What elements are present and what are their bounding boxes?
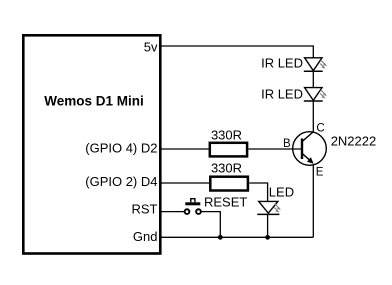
wire D3 cathode to ground rail <box>267 214 269 237</box>
svg-text:IR LED: IR LED <box>261 56 303 71</box>
svg-text:Wemos D1 Mini: Wemos D1 Mini <box>44 94 144 109</box>
IR LED D2 (bottom) <box>304 88 327 101</box>
svg-text:330R: 330R <box>211 161 242 176</box>
LED D3 <box>257 201 281 214</box>
resistor R2 330R <box>210 177 248 191</box>
wire D1 cathode to D2 anode <box>312 71 314 87</box>
wire R1 to Q1 base <box>248 148 302 150</box>
svg-text:Gnd: Gnd <box>133 229 158 244</box>
resistor R1 330R <box>210 143 247 157</box>
junction dot at LED/ground rail <box>265 235 270 240</box>
svg-text:RESET: RESET <box>204 195 247 210</box>
ground rail wire Gnd pin to Q1 emitter <box>162 236 314 238</box>
wire 5v pin to IR LED anode <box>162 46 314 58</box>
svg-text:(GPIO 2) D4: (GPIO 2) D4 <box>85 174 157 189</box>
Wemos D1 Mini module U1 <box>23 35 160 253</box>
wire D2 cathode to Q1 collector <box>312 101 314 132</box>
svg-text:RST: RST <box>132 202 158 217</box>
transistor Q1 <box>293 132 327 166</box>
wire Q1 emitter down to ground rail <box>312 165 314 237</box>
wire SW1 to ground rail <box>202 212 221 238</box>
svg-text:5v: 5v <box>144 40 158 55</box>
svg-text:330R: 330R <box>211 128 242 143</box>
svg-text:LED: LED <box>269 185 294 200</box>
wire D2 pin to R1 <box>162 148 209 150</box>
svg-text:E: E <box>316 166 324 178</box>
svg-text:B: B <box>283 138 291 150</box>
wire D4 pin to R2 <box>162 182 210 184</box>
svg-text:2N2222: 2N2222 <box>331 133 377 148</box>
junction dot at SW1/ground rail <box>218 235 223 240</box>
IR LED D1 (top) <box>304 58 327 71</box>
wire RST pin to pushbutton SW1 <box>162 211 185 213</box>
svg-text:C: C <box>316 122 324 134</box>
svg-text:IR LED: IR LED <box>261 87 303 102</box>
wire R2 to LED D3 anode <box>249 183 267 201</box>
pushbutton SW1 <box>185 199 201 214</box>
svg-text:(GPIO 4) D2: (GPIO 4) D2 <box>85 141 157 156</box>
